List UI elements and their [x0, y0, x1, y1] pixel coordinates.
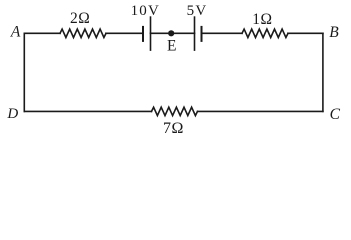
resistor R2 1Ω zigzag	[242, 29, 288, 37]
battery B1 10V short plate (negative)	[142, 27, 144, 41]
wire left side D to A	[23, 33, 25, 111]
battery B1 10V long plate (positive)	[150, 17, 152, 50]
battery B2 5V long plate (positive)	[194, 17, 196, 50]
resistor R1 2Ω zigzag	[60, 29, 106, 37]
wire R3 to corner D (bottom-left segment)	[24, 110, 151, 112]
svg-text:D: D	[6, 106, 18, 122]
wire right side B to C	[322, 33, 324, 111]
svg-text:C: C	[330, 106, 341, 123]
svg-text:1Ω: 1Ω	[252, 11, 272, 28]
wire R1 to battery B1	[106, 32, 143, 34]
svg-text:B: B	[329, 24, 339, 41]
svg-text:A: A	[10, 23, 21, 40]
wire R2 to corner B	[288, 32, 323, 34]
node E junction dot	[168, 30, 174, 36]
wire B2 to R2	[202, 32, 243, 34]
svg-text:5V: 5V	[187, 3, 208, 19]
svg-text:10V: 10V	[131, 3, 160, 19]
svg-text:E: E	[167, 38, 176, 55]
wire A to R1 (top-left segment)	[24, 32, 60, 34]
resistor R3 7Ω zigzag	[152, 107, 198, 115]
wire C to R3 (bottom-right segment)	[198, 110, 323, 112]
svg-text:2Ω: 2Ω	[70, 10, 90, 27]
battery B2 5V short plate (negative)	[201, 27, 203, 41]
wire B1 to battery B2 through node E	[151, 32, 195, 34]
svg-text:7Ω: 7Ω	[163, 120, 184, 137]
